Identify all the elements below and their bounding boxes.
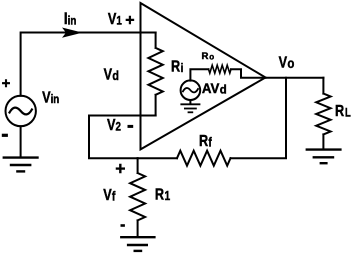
dependent source AVd circle bbox=[181, 80, 201, 100]
svg-text:Ro: Ro bbox=[202, 51, 215, 62]
resistor Ri bbox=[148, 33, 162, 116]
wire Vin bottom to ground bbox=[20, 126, 22, 156]
wire top (Vin to V1 node) bbox=[21, 33, 156, 96]
minus at Vf bbox=[121, 224, 125, 227]
ground (R1) bbox=[120, 237, 156, 251]
op-amp U1 triangle bbox=[141, 3, 266, 149]
wire bottom rail to Rf bbox=[138, 157, 177, 159]
svg-text:Vd: Vd bbox=[104, 66, 119, 83]
minus at Vin bbox=[2, 134, 8, 137]
resistor R1 bbox=[130, 158, 145, 236]
wire Rf to output node bbox=[231, 78, 287, 159]
svg-text:Vf: Vf bbox=[103, 187, 115, 204]
svg-text:+: + bbox=[115, 159, 125, 179]
resistor Rf bbox=[177, 151, 231, 166]
svg-text:+: + bbox=[2, 75, 11, 92]
svg-text:+: + bbox=[125, 12, 134, 29]
svg-text:AVd: AVd bbox=[202, 81, 227, 97]
minus at V2 bbox=[128, 125, 134, 128]
wire Ro to apex bbox=[231, 69, 266, 78]
ground (RL) bbox=[306, 150, 342, 164]
source Vin circle bbox=[6, 96, 36, 126]
ground (AVd) bbox=[180, 104, 200, 112]
resistor Ro bbox=[209, 65, 232, 73]
resistor RL bbox=[316, 78, 330, 149]
svg-text:RL: RL bbox=[335, 103, 351, 120]
sine wave in Vin bbox=[10, 108, 32, 115]
arrow Iin bbox=[62, 28, 83, 38]
svg-text:Vo: Vo bbox=[279, 54, 295, 71]
wire AVd to ground bbox=[189, 100, 191, 104]
wire output Vo to RL bbox=[266, 77, 324, 79]
ground (Vin) bbox=[3, 158, 39, 172]
wire AVd source to Ro bbox=[190, 69, 208, 80]
wire V2 (Ri bottom to left, down, to bottom rail) bbox=[89, 116, 156, 159]
sine wave in AVd bbox=[183, 88, 198, 92]
